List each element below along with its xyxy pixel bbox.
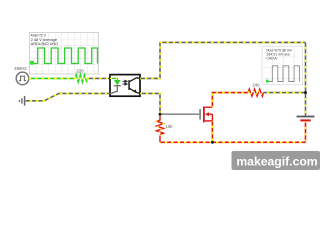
svg-text:ARDUINO UNO: ARDUINO UNO [31,41,59,46]
optocoupler U1 phototransistor collector [130,78,141,82]
wire W6 right rail down to battery [305,42,307,115]
battery V2 positive plate [297,116,315,118]
optocoupler U1 box [110,75,140,97]
wire W2 R1 to opto [88,77,111,79]
wire W7 battery negative down [305,121,307,142]
resistor R3 240 [248,89,264,96]
scope SCOPE2 sweep marker [266,80,269,83]
transistor Q1 source stub [205,120,213,122]
svg-text:makeagif.com: makeagif.com [236,154,317,168]
svg-text:10k: 10k [166,124,174,129]
optocoupler U1 phototransistor base bar [128,80,130,90]
transistor Q1 body arrow [205,112,213,121]
optocoupler U1 LED cathode bar [114,85,121,87]
scope SCOPE1 sweep marker [30,61,34,65]
svg-text:CAIXA: CAIXA [266,57,277,61]
node junction at gate/R2 [159,113,162,116]
wire W12 R3 to right rail [264,92,306,94]
wire W10 gate wire [160,113,199,115]
transistor Q1 gate bar [199,109,201,120]
wire W9 opto emitter to gate node [140,93,160,114]
svg-text:490Hz: 490Hz [14,66,26,71]
scope SCOPE2 (output) [262,46,303,84]
scope SCOPE1 waveform [31,48,98,64]
resistor R2 10k [157,114,164,142]
wire W1 source to R1 [29,77,75,79]
voltage source V1 490Hz square [16,72,29,85]
svg-text:220: 220 [76,69,84,74]
wire W14 ground to opto cathode pin [25,93,110,100]
wire W5 top rail [160,41,306,43]
node junction at source/bottom rail [211,141,214,144]
battery V2 negative plate [300,119,310,121]
scope SCOPE2 waveform [267,66,299,82]
wire W8 bottom rail [160,141,306,143]
scope SCOPE1 (Arduino output) [30,33,99,75]
node junction at R3/right rail [304,91,307,94]
wire W11 drain up and right to R3 [212,93,248,108]
transistor Q1 drain stub [205,106,213,108]
wire W13 source down to bottom rail [211,121,213,142]
optocoupler U1 phototransistor emitter with arrow [130,88,141,93]
transistor Q1 channel bar [203,106,205,122]
optocoupler U1 LED D1 [114,80,121,85]
resistor R1 220 [75,75,88,83]
svg-text:240: 240 [252,82,260,87]
wire W3 opto collector to riser [140,42,160,78]
watermark makeagif.com [232,151,320,170]
ground GND1 [19,96,24,106]
optocoupler U1 LED cathode lead [110,86,117,94]
optocoupler U1 light arrows [122,80,127,85]
optocoupler U1 LED anode lead [110,78,117,80]
